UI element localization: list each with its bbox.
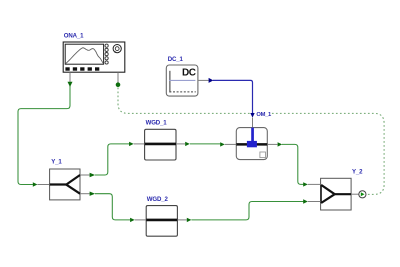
svg-text:WGD_2: WGD_2: [147, 196, 169, 203]
Y_1 bottom output port lead: [80, 193, 90, 195]
DC_1 output port lead: [198, 79, 209, 81]
WGD_2 input port lead: [135, 219, 147, 221]
Y_2 output port connector arrow: [361, 192, 365, 196]
component Y_2 (Y-branch combiner): [321, 178, 352, 210]
wire ONA_1 left port to Y_1 input: [18, 86, 70, 185]
svg-text:ONA_1: ONA_1: [64, 32, 84, 39]
Y_2 output port lead: [351, 193, 359, 195]
Y_2 bottom input port lead: [308, 201, 321, 203]
DC_1 output port arrow (blue electrical): [209, 78, 214, 83]
wire Y_1 top output to WGD_1 input: [95, 144, 130, 175]
OM_1 output port lead: [267, 143, 277, 145]
wire OM_1 output to Y_2 top input: [282, 144, 303, 184]
ONA_1 right input port lead: [117, 72, 119, 82]
WGD_2 output port arrow: [187, 218, 192, 222]
Y_2 bottom input port arrow: [303, 199, 308, 203]
ONA_1 left output port lead: [69, 72, 71, 82]
component WGD_1 (waveguide): [145, 129, 176, 160]
OM_1 top electrical port arrow (blue, pointing down): [250, 113, 254, 118]
blue electrical wire DC_1 to OM_1: [213, 80, 253, 113]
component DC_1 (DC bias source): [166, 65, 198, 96]
WGD_1 output port arrow: [185, 142, 190, 146]
Y_1 input port arrow: [33, 182, 38, 186]
svg-text:Y_2: Y_2: [352, 168, 363, 175]
svg-text:OM_1: OM_1: [256, 112, 272, 118]
WGD_2 output port lead: [177, 219, 186, 221]
wire Y_1 bottom output to WGD_2 input: [95, 194, 130, 220]
Y_1 top output port lead: [80, 174, 90, 176]
WGD_1 input port arrow: [129, 142, 134, 146]
label OM_1: [255, 110, 272, 118]
Y_2 top input port arrow: [303, 182, 308, 186]
svg-text:DC: DC: [182, 67, 196, 78]
dashed monitor wire Y_2 output to ONA_1 right port: [118, 88, 384, 195]
ONA_1 right input port dot: [116, 82, 121, 87]
svg-text:DC_1: DC_1: [168, 56, 184, 63]
OM_1 input port lead: [225, 143, 237, 145]
wire WGD_1 output to OM_1 input: [190, 143, 220, 145]
OM_1 input port arrow: [220, 142, 225, 146]
svg-text:Y_1: Y_1: [51, 159, 62, 166]
WGD_1 output port lead: [176, 143, 185, 145]
component ONA_1 (optical network analyzer): [63, 42, 125, 72]
svg-text:WGD_1: WGD_1: [146, 120, 168, 127]
component Y_1 (Y-branch splitter): [50, 169, 80, 200]
OM_1 output port arrow: [278, 142, 283, 146]
component WGD_2 (waveguide): [146, 206, 177, 237]
Y_1 input port lead: [37, 184, 49, 186]
OM_1 top port lead: [252, 118, 254, 128]
Y_2 top input port lead: [308, 183, 321, 185]
wire WGD_2 output to Y_2 bottom input: [191, 202, 303, 220]
ONA_1 left output port arrow: [68, 82, 73, 87]
Y_2 output port connector circle: [359, 191, 366, 198]
Y_1 bottom output port arrow: [90, 192, 96, 196]
component OM_1 (optical amplitude modulator): [236, 128, 267, 160]
WGD_1 input port lead: [134, 143, 145, 145]
Y_1 top output port arrow: [90, 173, 96, 177]
WGD_2 input port arrow: [130, 218, 135, 222]
